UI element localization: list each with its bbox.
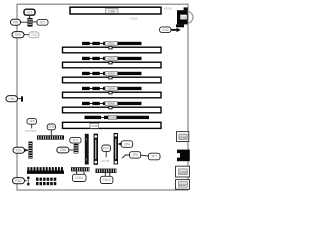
label JP6 — [130, 152, 141, 158]
connector CN12 header — [96, 169, 117, 173]
svg-text:CN15: CN15 — [179, 135, 187, 139]
slot ISA5 upper row — [82, 102, 142, 106]
svg-text:CN4: CN4 — [9, 97, 16, 101]
pin header bracket — [27, 177, 29, 186]
svg-text:CN7/8: CN7/8 — [101, 159, 109, 163]
svg-text:CN5: CN5 — [48, 125, 55, 129]
svg-text:ISA5: ISA5 — [108, 102, 115, 106]
svg-text:SPK: SPK — [15, 33, 22, 37]
svg-text:ISA4: ISA4 — [108, 87, 115, 91]
connector PW2 power header — [29, 142, 33, 159]
svg-text:ISA6: ISA6 — [109, 116, 116, 120]
svg-text:JP7: JP7 — [151, 155, 157, 159]
slot ISA4 lower row — [63, 92, 162, 98]
label CN12 — [100, 176, 113, 183]
slot ISA6 upper row — [85, 115, 150, 119]
connector J5 (vertical header with round ends) — [114, 133, 118, 164]
wire JP6 to JP7 — [141, 154, 149, 157]
connector CN6 — [57, 147, 74, 153]
wires CN11 to label — [76, 171, 78, 174]
svg-text:KEYB.: KEYB. — [164, 7, 173, 11]
wire J1 to JP2 — [33, 21, 38, 23]
svg-text:JP5: JP5 — [29, 120, 35, 124]
slot ISA1 lower row — [63, 47, 162, 53]
arrow FD1 to power header — [25, 149, 29, 152]
svg-text:CN2: CN2 — [162, 28, 169, 32]
label CN5 — [47, 124, 55, 130]
svg-text:FD1: FD1 — [16, 148, 22, 152]
connector J3 (vertical header) — [85, 134, 89, 165]
board outline — [17, 4, 188, 190]
label JP5 — [27, 119, 37, 125]
svg-text:JP4: JP4 — [124, 142, 130, 146]
svg-text:CN3: CN3 — [31, 33, 38, 37]
label CN7 — [102, 145, 111, 151]
svg-text:CN6: CN6 — [60, 148, 67, 152]
connector CN4 (external battery) — [6, 96, 21, 102]
wire CN5 stem — [50, 130, 52, 136]
connector CN5 header — [37, 135, 64, 139]
svg-text:CN16: CN16 — [179, 170, 187, 174]
connector PW1 (power LED) — [11, 19, 28, 25]
svg-text:CN7: CN7 — [103, 146, 110, 150]
wire JP5 stem — [31, 124, 33, 128]
slot ISA2 lower row — [63, 62, 162, 68]
connector PW3 — [13, 178, 27, 184]
keyboard DIN connector CN1 — [176, 7, 193, 27]
svg-text:JP2: JP2 — [40, 21, 46, 25]
pin header CN4 tick — [21, 96, 23, 101]
slot ISA4 upper row — [82, 87, 142, 91]
svg-text:CN17: CN17 — [179, 183, 187, 187]
slot ISA5 lower row — [63, 107, 162, 113]
svg-text:PW: PW — [13, 20, 18, 24]
svg-text:JP6: JP6 — [132, 153, 138, 157]
svg-text:CN11: CN11 — [75, 176, 83, 180]
jumper block J2 — [74, 144, 79, 154]
svg-text:ISA1: ISA1 — [108, 42, 115, 46]
slot ISA2 upper row — [82, 56, 142, 60]
label JP2 — [37, 19, 48, 25]
connector CN13 (pin row) — [27, 167, 64, 174]
label CN2 (keyboard pointer) — [160, 27, 172, 33]
wire CN7 stem — [105, 151, 107, 157]
connector CN17 (parallel port) — [176, 166, 190, 177]
connector SPK1 (speaker) — [12, 32, 29, 38]
svg-text:CN1: CN1 — [181, 16, 187, 20]
svg-text:CN8: CN8 — [91, 124, 97, 128]
svg-text:CN12: CN12 — [102, 178, 111, 182]
slot ISA3 upper row — [82, 72, 142, 76]
label CN11 — [73, 174, 87, 181]
svg-text:ISA3: ISA3 — [108, 72, 115, 76]
arrow JP4 to J5 — [118, 143, 121, 145]
slot ISA1 upper row — [82, 41, 142, 45]
svg-text:EXT.BAT: EXT.BAT — [25, 129, 36, 133]
svg-text:JP3: JP3 — [72, 138, 78, 142]
connector CN11 header — [71, 167, 90, 171]
label JP3 — [70, 137, 81, 143]
arrow to keyboard connector — [171, 28, 180, 32]
connector CN16 (mouse port, black) — [177, 150, 190, 162]
label JP7 — [148, 153, 160, 160]
connector FD1 — [13, 147, 25, 153]
label JP1 — [24, 9, 35, 15]
jumper block J1 — [28, 18, 33, 27]
connector CN15 (serial port) — [177, 132, 189, 142]
slot ISA3 lower row — [63, 77, 162, 83]
label CN3 — [29, 32, 39, 38]
slot CN9 (top card-edge connector) — [70, 7, 161, 14]
svg-text:PW2: PW2 — [15, 179, 22, 183]
svg-text:JP1: JP1 — [27, 10, 33, 14]
connector J4 (vertical header with round ends) — [94, 134, 98, 165]
wires CN12 to label — [104, 173, 106, 176]
connector CN18 (serial port 2) — [176, 180, 190, 190]
svg-text:CN9: CN9 — [108, 9, 115, 13]
wire JP3 stem — [74, 142, 76, 145]
label JP4 — [121, 141, 133, 148]
connector CN14 (2-row pin block) — [36, 178, 56, 186]
wire hook to JP6 — [122, 155, 129, 158]
svg-text:CN10: CN10 — [130, 16, 138, 20]
wire JP1 stem — [29, 15, 31, 18]
svg-text:ISA2: ISA2 — [108, 57, 115, 61]
slot ISA6 lower row — [63, 122, 162, 128]
